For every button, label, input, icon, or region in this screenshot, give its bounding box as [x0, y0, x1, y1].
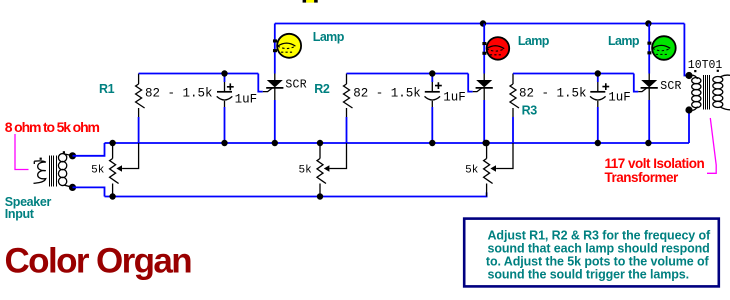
svg-text:1uF: 1uF	[235, 93, 258, 107]
wire T1 bottom terminal to bottom bus	[73, 187, 105, 196]
mid bus wire	[105, 142, 690, 144]
junction node P2 bottom on bottom bus	[317, 193, 323, 199]
svg-text:117 volt Isolation: 117 volt Isolation	[605, 156, 705, 171]
junction node lamp 3 wire on top bus	[645, 20, 651, 26]
capacitor C2 1uF	[431, 74, 433, 83]
bottom bus wire	[105, 192, 487, 196]
resistor R1 82-1.5k	[138, 74, 140, 85]
SCR2 thyristor	[483, 74, 485, 81]
svg-text:1uF: 1uF	[608, 91, 631, 105]
svg-text:5k: 5k	[299, 165, 313, 177]
SCR1 thyristor	[274, 74, 276, 81]
cut-off lamp at top edge	[303, 0, 318, 3]
junction node P2 top on mid bus	[317, 140, 323, 146]
svg-text:sound that each lamp should re: sound that each lamp should respond	[488, 242, 710, 256]
lamp 3 (green)	[647, 36, 675, 60]
svg-text:5k: 5k	[465, 165, 479, 177]
wire top bus to lamp 3 / SCR3 anode	[648, 24, 650, 74]
wire C2 bottom lead to mid bus	[431, 107, 433, 143]
junction node C3 top on rail	[595, 70, 601, 76]
stage 3 top rail wire	[513, 73, 634, 75]
wire R2 bottom lead to mid bus	[346, 117, 348, 143]
svg-text:1uF: 1uF	[443, 90, 466, 104]
svg-text:82 - 1.5k: 82 - 1.5k	[145, 87, 213, 101]
speaker input transformer T1	[34, 154, 73, 188]
magenta pointer to isolation transformer	[707, 118, 716, 173]
10T01 primary bottom terminal node	[685, 106, 692, 113]
wire C3 bottom lead to mid bus	[597, 107, 599, 143]
T1 secondary bottom terminal node	[69, 184, 76, 191]
svg-text:SCR: SCR	[660, 80, 681, 93]
stage 1 top rail wire	[139, 73, 259, 75]
T1 primary phasing dot	[40, 158, 42, 160]
junction node C3 bottom on mid bus	[595, 140, 601, 146]
svg-text:to. Adjust the 5k pots to the: to. Adjust the 5k pots to the volume of	[486, 255, 710, 269]
capacitor C1 1uF	[224, 74, 226, 83]
svg-text:5k: 5k	[91, 165, 105, 177]
lamp 2 (red)	[482, 37, 509, 60]
junction node C2 top on rail	[429, 70, 435, 76]
wire SCR3 cathode to mid bus	[648, 100, 650, 143]
T1 secondary phasing dot	[63, 151, 65, 153]
resistor R3 82-1.5k	[512, 74, 514, 85]
magenta pointer to speaker transformer	[15, 134, 29, 170]
junction node SCR1 cathode on mid bus	[272, 140, 278, 146]
note box border	[464, 219, 719, 287]
isolation transformer 10T01	[689, 75, 730, 110]
junction node P3 top on mid bus	[483, 140, 489, 146]
P2 wiper arrowhead	[324, 165, 330, 171]
wire SCR2 gate lead (black part)	[473, 88, 482, 92]
wire R3 bottom lead to mid bus	[512, 117, 514, 143]
svg-text:R2: R2	[314, 82, 330, 96]
wire C1 bottom lead to mid bus	[224, 107, 226, 143]
P1 wiper arm wire	[122, 143, 139, 169]
svg-text:82 - 1.5k: 82 - 1.5k	[353, 87, 421, 101]
svg-text:Input: Input	[5, 207, 35, 221]
junction node lamp 2 wire on top bus	[480, 20, 486, 26]
svg-text:Lamp: Lamp	[608, 34, 640, 48]
svg-text:R3: R3	[522, 103, 538, 117]
junction node C1 top on rail	[221, 70, 227, 76]
C2 plus polarity mark	[435, 82, 442, 89]
P2 wiper arm wire	[330, 143, 347, 169]
P3 wiper arrowhead	[490, 165, 496, 171]
svg-text:Adjust R1, R2 & R3 for the fre: Adjust R1, R2 & R3 for the frequecy of	[488, 229, 712, 243]
wire stage 3 rail to SCR3 gate (blue part)	[634, 74, 639, 92]
svg-text:sound the sould trigger the la: sound the sould trigger the lamps.	[488, 268, 689, 282]
svg-text:8 ohm to 5k ohm: 8 ohm to 5k ohm	[5, 119, 100, 135]
svg-text:R1: R1	[99, 82, 115, 96]
svg-text:Transformer: Transformer	[605, 170, 680, 185]
P1 wiper arrowhead	[116, 165, 122, 171]
junction node P1 top on mid bus	[109, 140, 115, 146]
wire top bus to lamp 2 / SCR2 anode	[483, 24, 485, 74]
wire SCR2 cathode to mid bus	[483, 100, 485, 143]
potentiometer P2 5k	[319, 143, 321, 159]
wire top bus to lamp 1 / SCR1 anode	[274, 24, 276, 74]
C1 plus polarity mark	[227, 83, 234, 90]
junction node C2 bottom on mid bus	[429, 140, 435, 146]
svg-text:82 - 1.5k: 82 - 1.5k	[519, 86, 587, 100]
potentiometer P1 5k	[112, 143, 114, 159]
junction node SCR2 cathode on mid bus	[482, 140, 488, 146]
svg-text:10T01: 10T01	[688, 59, 723, 72]
wire R1 bottom lead to mid bus	[138, 117, 140, 143]
SCR3 thyristor	[648, 74, 650, 81]
10T01 left phasing dot	[694, 70, 696, 72]
potentiometer P3 5k	[486, 143, 488, 159]
svg-text:Lamp: Lamp	[518, 34, 550, 48]
junction node C1 bottom on mid bus	[221, 140, 227, 146]
P3 wiper arm wire	[496, 143, 513, 169]
svg-text:Color Organ: Color Organ	[5, 241, 192, 280]
wire 10T01 primary bottom to mid bus	[688, 110, 690, 143]
junction node P1 bottom on bottom bus	[109, 193, 115, 199]
svg-text:SCR: SCR	[285, 78, 306, 91]
T1 secondary top terminal node	[69, 152, 76, 159]
wire stage 2 rail to SCR2 gate (blue part)	[468, 74, 473, 92]
wire stage 1 rail to SCR1 gate (blue part)	[258, 74, 263, 92]
wire SCR1 cathode to mid bus	[274, 100, 276, 143]
wire SCR3 gate lead (black part)	[638, 88, 646, 92]
10T01 primary top terminal node	[685, 72, 692, 79]
10T01 right phasing dot	[717, 70, 719, 72]
top power bus wire	[275, 23, 685, 25]
wire top bus down right side to 10T01 primary top	[684, 24, 689, 76]
junction node SCR3 cathode on mid bus	[645, 140, 651, 146]
stage 2 top rail wire	[347, 73, 469, 75]
wire SCR1 gate lead (black part)	[263, 88, 272, 92]
C3 plus polarity mark	[602, 83, 609, 90]
svg-text:Lamp: Lamp	[313, 30, 345, 44]
lamp 1 (yellow)	[273, 34, 301, 58]
wire T1 top terminal to mid bus	[73, 143, 105, 156]
capacitor C3 1uF	[597, 74, 599, 83]
resistor R2 82-1.5k	[346, 74, 348, 85]
